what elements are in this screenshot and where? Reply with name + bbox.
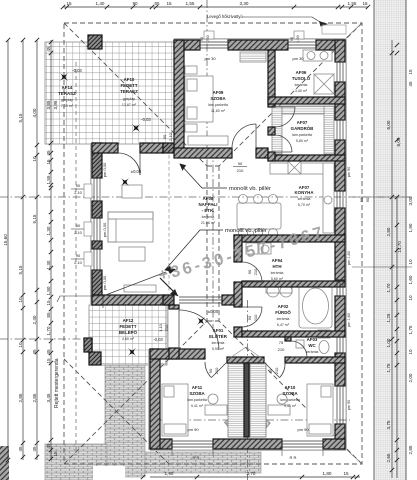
svg-text:2,00: 2,00 — [408, 373, 413, 382]
svg-text:45: 45 — [32, 446, 37, 452]
svg-text:GARDRÓB: GARDRÓB — [291, 126, 314, 131]
front door — [179, 310, 219, 350]
svg-text:90: 90 — [268, 368, 273, 373]
svg-text:pm 90: pm 90 — [347, 167, 351, 178]
wardrobe centre wall — [244, 363, 249, 437]
terrace pillar — [88, 35, 102, 49]
svg-text:15: 15 — [53, 451, 58, 457]
svg-text:AF14: AF14 — [62, 85, 73, 90]
bedroom AF11 desk+chair — [205, 405, 227, 415]
svg-text:7,00 m²: 7,00 m² — [61, 104, 74, 108]
living room left wall piers — [92, 143, 102, 178]
svg-text:45: 45 — [408, 81, 413, 87]
svg-text:monolit vb. pillér: monolit vb. pillér — [229, 186, 271, 192]
svg-text:90: 90 — [76, 223, 81, 228]
furdo door — [242, 307, 262, 327]
svg-text:TERASZ: TERASZ — [120, 89, 138, 94]
top windows — [200, 40, 228, 50]
svg-text:10: 10 — [18, 297, 23, 303]
tv board — [124, 285, 156, 292]
svg-text:FEDETT: FEDETT — [119, 324, 136, 329]
svg-text:2,85: 2,85 — [32, 393, 37, 402]
svg-text:1,10: 1,10 — [158, 323, 163, 332]
svg-text:210: 210 — [253, 268, 258, 275]
svg-text:-0,03: -0,03 — [141, 117, 151, 122]
svg-text:10: 10 — [18, 342, 23, 348]
svg-text:pm 0,00: pm 0,00 — [102, 275, 107, 290]
svg-text:11,60 m²: 11,60 m² — [211, 109, 226, 113]
svg-text:HTH: HTH — [272, 264, 281, 269]
svg-text:monolit vb. pillér: monolit vb. pillér — [225, 228, 267, 234]
neighbouring paving strip (right) — [374, 0, 406, 480]
svg-text:4,00: 4,00 — [32, 108, 37, 117]
svg-text:45: 45 — [46, 443, 51, 449]
svg-text:10: 10 — [408, 295, 413, 301]
lower-left outer wall — [150, 349, 160, 449]
svg-text:AF09: AF09 — [213, 90, 224, 95]
svg-text:9,41 m²: 9,41 m² — [191, 404, 204, 408]
svg-text:1,90: 1,90 — [165, 471, 174, 476]
kitchen counters — [270, 163, 334, 174]
svg-text:90: 90 — [76, 253, 81, 258]
monolit labels — [225, 186, 271, 234]
svg-text:90: 90 — [200, 37, 204, 41]
svg-text:pm 1,80: pm 1,80 — [347, 313, 351, 327]
svg-text:45: 45 — [32, 349, 37, 355]
svg-text:1,30: 1,30 — [46, 260, 51, 269]
svg-text:R R: R R — [290, 455, 297, 460]
svg-text:210: 210 — [214, 367, 219, 374]
svg-text:13,87 m²: 13,87 m² — [122, 103, 137, 107]
svg-text:3,70: 3,70 — [247, 471, 256, 476]
wc — [319, 341, 329, 354]
szoba/tusolo wall — [268, 50, 275, 107]
right strip rotated numbers — [386, 69, 413, 462]
left wall windows — [92, 178, 102, 201]
svg-text:- ÉTK.: - ÉTK. — [202, 208, 215, 213]
right wall windows — [335, 62, 345, 82]
svg-text:AF02: AF02 — [278, 304, 289, 309]
svg-text:KONYHA: KONYHA — [294, 190, 314, 195]
bottom wall — [150, 439, 172, 449]
svg-text:10: 10 — [408, 349, 413, 355]
svg-text:lam.parketta: lam.parketta — [208, 103, 228, 107]
sparkle stars — [57, 70, 208, 359]
svg-text:kerámia: kerámia — [306, 350, 319, 354]
svg-text:AF06: AF06 — [296, 70, 307, 75]
svg-text:1,60: 1,60 — [408, 275, 413, 284]
svg-text:1,80: 1,80 — [323, 471, 332, 476]
svg-text:6,47 m²: 6,47 m² — [277, 323, 290, 327]
svg-text:210: 210 — [164, 324, 169, 331]
svg-text:FÜRDŐ: FÜRDŐ — [275, 310, 291, 315]
svg-text:10: 10 — [32, 156, 37, 162]
svg-text:2,10: 2,10 — [74, 230, 83, 235]
svg-text:2,80: 2,80 — [386, 227, 391, 236]
svg-text:1,80: 1,80 — [46, 286, 51, 295]
furdo bottom wall — [242, 331, 345, 337]
svg-text:15: 15 — [343, 471, 349, 476]
HTH/furdo left wall — [234, 235, 242, 262]
svg-text:pm 90: pm 90 — [297, 427, 309, 432]
svg-text:AF07: AF07 — [297, 120, 308, 125]
svg-text:85: 85 — [46, 312, 51, 318]
tusolo/gardrob wall — [268, 97, 345, 104]
svg-text:kerámia: kerámia — [271, 271, 284, 275]
svg-text:R R: R R — [193, 455, 200, 460]
svg-text:21,06 m²: 21,06 m² — [201, 221, 216, 225]
HTH top wall — [234, 235, 345, 242]
svg-text:AF08: AF08 — [203, 196, 214, 201]
ceiling lines over wardrobes — [227, 347, 264, 360]
secondary dashed eave line — [75, 62, 77, 455]
svg-text:15: 15 — [408, 69, 413, 75]
svg-text:kerámia: kerámia — [212, 341, 225, 345]
svg-text:Levegő hőszivattyú: Levegő hőszivattyú — [207, 14, 244, 19]
svg-text:SZOBA: SZOBA — [189, 391, 205, 396]
svg-text:2,85: 2,85 — [18, 393, 23, 402]
gardrob door — [275, 135, 292, 152]
wardrobes between bedrooms — [228, 363, 244, 437]
svg-text:kerámia: kerámia — [298, 197, 311, 201]
svg-text:kerámia: kerámia — [295, 83, 308, 87]
svg-text:90: 90 — [290, 37, 294, 41]
svg-text:FEDETT: FEDETT — [120, 83, 137, 88]
svg-text:AF94: AF94 — [272, 258, 283, 263]
HTH appliances — [246, 243, 258, 254]
level marks — [72, 68, 219, 342]
AF11 top wall — [150, 349, 205, 359]
svg-text:1,55: 1,55 — [186, 1, 195, 6]
svg-text:lam.parketta: lam.parketta — [292, 133, 312, 137]
svg-text:1,60 m²: 1,60 m² — [306, 356, 319, 360]
svg-text:15: 15 — [46, 300, 51, 306]
entrance arrow — [160, 278, 178, 296]
szoba door — [232, 124, 256, 148]
svg-text:3,40 m²: 3,40 m² — [295, 89, 308, 93]
svg-text:3,75: 3,75 — [386, 420, 391, 429]
living top wall — [92, 143, 118, 153]
bedroom AF11 bed — [162, 384, 188, 436]
covered entry AF12 grid — [89, 305, 167, 365]
svg-text:5,15: 5,15 — [32, 214, 37, 223]
szoba bottom wall — [174, 148, 232, 158]
svg-text:1,90: 1,90 — [408, 223, 413, 232]
svg-text:1,70: 1,70 — [46, 326, 51, 335]
wc left wall — [285, 337, 291, 341]
AF11 door — [205, 362, 211, 378]
svg-text:1,40: 1,40 — [96, 1, 105, 6]
svg-text:AF01: AF01 — [213, 328, 224, 333]
svg-text:3,45: 3,45 — [46, 393, 51, 402]
roller blind boxes — [84, 31, 304, 266]
svg-text:1,75: 1,75 — [386, 363, 391, 372]
svg-text:90: 90 — [247, 269, 252, 274]
svg-text:kerámia: kerámia — [202, 215, 215, 219]
svg-text:210: 210 — [237, 168, 244, 173]
dining table — [237, 203, 281, 229]
svg-text:gyeplap: gyeplap — [61, 98, 74, 102]
svg-text:45: 45 — [46, 150, 51, 156]
bathroom — [299, 285, 332, 328]
svg-text:pm 1,80: pm 1,80 — [347, 251, 351, 265]
gardrob bottom wall — [268, 155, 345, 161]
sofa — [108, 212, 153, 242]
svg-text:pm 90: pm 90 — [187, 427, 199, 432]
roof overhang dashed outline — [64, 23, 362, 464]
svg-text:AF03: AF03 — [307, 337, 318, 342]
svg-text:45: 45 — [18, 446, 23, 452]
entry front wall below living — [169, 305, 179, 309]
svg-text:AF11: AF11 — [192, 385, 203, 390]
svg-text:1,50: 1,50 — [206, 35, 210, 42]
svg-text:1,55: 1,55 — [46, 175, 51, 184]
svg-text:1,30: 1,30 — [46, 226, 51, 235]
svg-text:15,60: 15,60 — [3, 234, 8, 246]
svg-text:210: 210 — [274, 367, 279, 374]
svg-text:lam.parketta: lam.parketta — [280, 398, 300, 402]
svg-text:TERASZ: TERASZ — [58, 91, 76, 96]
AF10 door — [280, 362, 285, 378]
svg-text:1,50: 1,50 — [296, 35, 300, 42]
svg-text:pm 30: pm 30 — [292, 56, 304, 61]
svg-text:15: 15 — [46, 358, 51, 364]
wc bottom / AF10 top wall — [285, 357, 345, 363]
svg-text:3,00: 3,00 — [408, 196, 413, 205]
svg-text:14,70: 14,70 — [397, 241, 402, 253]
terrace AF14+AF10 grid — [45, 42, 174, 144]
monolit pillar top — [163, 143, 174, 153]
svg-text:90: 90 — [365, 197, 370, 202]
svg-text:2,10: 2,10 — [74, 260, 83, 265]
svg-text:SZOBA: SZOBA — [282, 391, 298, 396]
right wall segments — [335, 40, 345, 62]
monolit pillar bottom — [163, 295, 174, 305]
svg-text:2,10: 2,10 — [74, 190, 83, 195]
svg-text:pm 0,00: pm 0,00 — [102, 162, 107, 177]
svg-text:1,00: 1,00 — [386, 338, 391, 347]
garden path bricks (bottom-left) — [0, 365, 261, 480]
svg-text:210: 210 — [278, 347, 285, 352]
svg-text:90: 90 — [162, 134, 167, 139]
svg-text:5,15: 5,15 — [18, 265, 23, 274]
sidelight next to entry — [179, 297, 222, 303]
svg-text:ELŐTÉR: ELŐTÉR — [209, 334, 228, 339]
svg-text:5,70 m²: 5,70 m² — [298, 203, 311, 207]
svg-text:kerámia: kerámia — [277, 317, 290, 321]
svg-text:3,95: 3,95 — [53, 100, 58, 109]
svg-text:90: 90 — [208, 368, 213, 373]
svg-text:3,30: 3,30 — [240, 1, 249, 6]
svg-text:pm 0,00: pm 0,00 — [102, 222, 107, 237]
svg-text:90: 90 — [238, 161, 243, 166]
svg-text:1,70: 1,70 — [386, 283, 391, 292]
svg-text:NAPPALI: NAPPALI — [199, 202, 218, 207]
left rotated dimension numbers — [3, 46, 58, 457]
svg-text:5,15: 5,15 — [18, 113, 23, 122]
top wall — [174, 40, 200, 50]
bedroom AF10 bed — [307, 384, 333, 436]
svg-text:1,25: 1,25 — [386, 313, 391, 322]
living/hall opening dashed line — [168, 155, 170, 293]
svg-text:210: 210 — [253, 314, 258, 321]
svg-text:45: 45 — [46, 46, 51, 52]
svg-text:15: 15 — [166, 1, 172, 6]
szoba left wall — [174, 40, 184, 153]
entry pillar — [89, 352, 101, 365]
svg-text:AF10: AF10 — [124, 77, 135, 82]
svg-text:4,60 m²: 4,60 m² — [122, 337, 135, 341]
HTH/furdo divider — [242, 281, 345, 287]
small opening dimension texts — [71, 56, 309, 460]
levego hoszivattyu — [207, 14, 244, 19]
svg-text:SZOBA: SZOBA — [210, 96, 226, 101]
AF09 dresser — [188, 136, 228, 145]
svg-text:WC: WC — [308, 343, 316, 348]
svg-text:5,90 m²: 5,90 m² — [212, 347, 225, 351]
svg-text:15: 15 — [46, 159, 51, 165]
svg-text:AF10: AF10 — [285, 385, 296, 390]
svg-text:2,85: 2,85 — [408, 445, 413, 454]
svg-text:90: 90 — [359, 197, 364, 202]
svg-text:TUSOLÓ: TUSOLÓ — [292, 76, 311, 81]
svg-text:1,75: 1,75 — [408, 325, 413, 334]
svg-text:5,60 m²: 5,60 m² — [271, 277, 284, 281]
HTH door — [242, 262, 262, 282]
room labels — [58, 70, 319, 408]
AF09 bedroom bed — [185, 76, 213, 122]
svg-text:BELÉPŐ: BELÉPŐ — [119, 330, 138, 335]
svg-text:2,40: 2,40 — [32, 315, 37, 324]
svg-text:5,80 m²: 5,80 m² — [296, 139, 309, 143]
svg-text:75: 75 — [279, 340, 284, 345]
svg-text:3,85: 3,85 — [46, 100, 51, 109]
entry wall w/ front door jog — [169, 348, 179, 359]
svg-text:2,65: 2,65 — [386, 453, 391, 462]
bedroom AF10 desk+chair — [268, 405, 290, 415]
svg-text:Rejtett mestergerenda: Rejtett mestergerenda — [54, 358, 60, 408]
svg-text:gyeplap: gyeplap — [123, 97, 136, 101]
AF09 cupboard — [240, 52, 266, 62]
svg-text:6,00: 6,00 — [386, 120, 391, 129]
svg-text:-0,03: -0,03 — [72, 68, 82, 73]
living bottom wall — [92, 295, 169, 305]
wc door — [291, 341, 307, 357]
svg-text:2,10: 2,10 — [168, 132, 173, 141]
svg-text:pm 30: pm 30 — [204, 56, 216, 61]
svg-text:90: 90 — [247, 315, 252, 320]
svg-text:15: 15 — [362, 1, 368, 6]
svg-text:10: 10 — [408, 259, 413, 265]
svg-text:±0,00: ±0,00 — [131, 169, 142, 174]
terrace door — [118, 153, 140, 175]
tusolo door — [275, 107, 295, 127]
svg-text:lam.parketta: lam.parketta — [187, 398, 207, 402]
wardrobe cap wall — [227, 357, 264, 363]
svg-text:pm 90: pm 90 — [347, 400, 351, 411]
svg-text:-0,03: -0,03 — [153, 337, 163, 342]
svg-text:9,41 m²: 9,41 m² — [284, 404, 297, 408]
svg-text:90: 90 — [76, 183, 81, 188]
bottom windows — [172, 439, 213, 449]
tusolo shower — [314, 74, 334, 94]
svg-text:AF12: AF12 — [123, 318, 134, 323]
gardrob shelving — [272, 106, 282, 154]
svg-text:±0,00: ±0,00 — [208, 309, 219, 314]
